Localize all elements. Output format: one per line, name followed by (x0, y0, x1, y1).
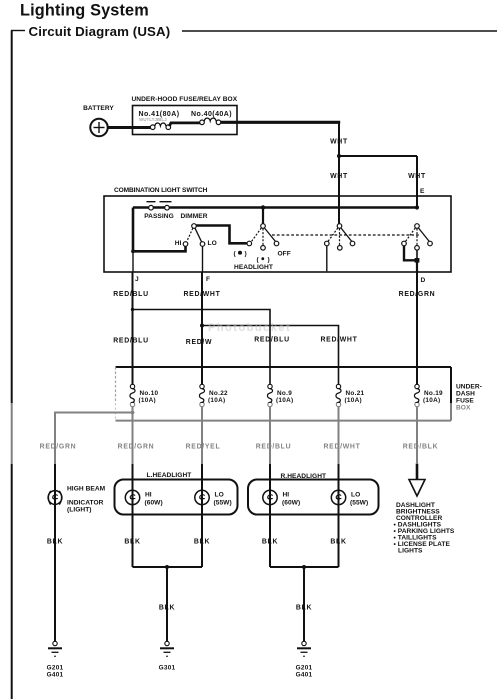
wire bus to headlight pivot (262, 208, 264, 225)
high beam indicator bulb (48, 491, 62, 505)
svg-text:LO: LO (351, 492, 360, 499)
svg-text:(10A): (10A) (345, 397, 362, 404)
svg-text:BLK: BLK (296, 605, 312, 612)
svg-text:RED/BLU: RED/BLU (254, 337, 290, 344)
wire D drop (416, 260, 418, 272)
cluster3 output L-link (thick) (404, 246, 417, 260)
svg-text:L.HEADLIGHT: L.HEADLIGHT (147, 472, 192, 479)
wire No.22 to L LO (201, 407, 203, 567)
svg-text:G401: G401 (47, 672, 64, 679)
bus bar (thick) (133, 206, 417, 209)
fuse No.41 (80A) (150, 125, 155, 130)
svg-text:F: F (206, 276, 210, 283)
svg-text:LIGHTS: LIGHTS (398, 548, 423, 555)
dimmer feed wire (thick) (196, 226, 247, 244)
bus left drop (thick) (132, 208, 135, 252)
cluster2 dashed arm left (328, 228, 338, 242)
svg-text:HIGH BEAM: HIGH BEAM (67, 486, 106, 493)
node J branch (131, 308, 134, 311)
headlight arm to OFF (solid) (265, 228, 276, 242)
passing switch bar (147, 201, 156, 203)
node J junction (131, 249, 135, 253)
wire No.9 to R HI (269, 407, 271, 567)
svg-text:PASSING: PASSING (144, 213, 174, 220)
battery B1 (90, 119, 107, 136)
node fuse10 output branch (131, 411, 135, 415)
headlight contact OFF (274, 241, 279, 246)
wire No.10 to L HI (132, 407, 134, 567)
dimmer switch pivot (192, 224, 197, 229)
R BLK join bar (270, 566, 339, 568)
svg-text:(55W): (55W) (350, 500, 368, 507)
ground G201/G401 right (297, 641, 311, 656)
cluster3 middle contact drop (416, 250, 418, 260)
L headlight box (115, 480, 238, 515)
svg-text:): ) (245, 251, 247, 258)
combination light switch box (104, 196, 451, 272)
svg-text:BLK: BLK (330, 539, 346, 546)
svg-text:D: D (421, 277, 426, 284)
watermark fade band (0, 403, 497, 464)
wire No.19 to arrow (416, 407, 418, 465)
svg-text:RED/BLU: RED/BLU (113, 338, 149, 345)
svg-text:WHT: WHT (330, 173, 348, 180)
switch cluster 3 pivot (415, 224, 420, 229)
header bracket tick (11, 30, 25, 32)
svg-text:DASH: DASH (456, 391, 475, 398)
svg-text:G201: G201 (47, 665, 64, 672)
cluster2 arm solid to right (341, 228, 352, 242)
svg-text:E: E (420, 188, 425, 195)
svg-text:HI: HI (175, 240, 182, 247)
dimmer arm to LO (solid) (195, 228, 202, 242)
wire No.21 to R LO (338, 407, 340, 567)
svg-text:G301: G301 (159, 665, 176, 672)
headlight arm dashed left (252, 228, 262, 242)
wire L join to ground (166, 567, 168, 642)
svg-text:HI: HI (283, 492, 290, 499)
svg-text:(55W): (55W) (214, 500, 232, 507)
svg-text:RED/BLU: RED/BLU (113, 291, 149, 298)
cluster2 left contact drop (326, 246, 328, 271)
header rule right of subtitle (182, 30, 497, 32)
node L join (165, 565, 169, 569)
svg-text:(60W): (60W) (145, 500, 163, 507)
wire D below box (416, 272, 418, 387)
passing switch contacts (149, 205, 154, 210)
svg-text:(10A): (10A) (423, 397, 440, 404)
HI contact drop + link to J (thick) (133, 247, 186, 252)
R headlight box (248, 480, 379, 515)
ground G301 middle (160, 641, 174, 656)
svg-text:BLK: BLK (47, 539, 63, 546)
L HI bulb (125, 490, 139, 504)
svg-text:(10A): (10A) (208, 397, 225, 404)
svg-text:INDICATOR: INDICATOR (67, 500, 104, 507)
node E bus junction (415, 205, 419, 209)
svg-text:No.40(40A): No.40(40A) (191, 111, 232, 118)
cluster3 dashed arm middle (416, 229, 418, 246)
wire LO contact to F (202, 247, 204, 273)
wire F branch to No.21 (202, 326, 339, 387)
svg-text:BLK: BLK (262, 539, 278, 546)
wire J below box (132, 272, 134, 387)
svg-text:(LIGHT): (LIGHT) (67, 507, 92, 514)
svg-text:BLK: BLK (194, 539, 210, 546)
fuse No.9 (10A) (267, 384, 272, 406)
left page border (11, 31, 13, 699)
svg-text:BATTERY: BATTERY (83, 105, 114, 112)
fuse No.10 (10A) (130, 384, 135, 406)
headlight switch pivot (261, 224, 266, 229)
svg-text:): ) (268, 257, 270, 264)
cluster3 contact right (428, 241, 433, 246)
svg-text:WHT: WHT (408, 173, 426, 180)
svg-text:G401: G401 (296, 672, 313, 679)
node headlight switch bus junction (261, 205, 265, 209)
headlight contact middle (261, 246, 266, 251)
svg-text:(10A): (10A) (276, 397, 293, 404)
wire down from feed (338, 122, 340, 156)
cluster2 dashed arm middle (339, 229, 341, 246)
ground G201/G401 left (48, 641, 62, 656)
svg-text:Circuit Diagram (USA): Circuit Diagram (USA) (29, 24, 171, 39)
L BLK join bar (133, 566, 203, 568)
svg-text:WHT: WHT (330, 139, 348, 146)
wire WHT right branch down (E) (416, 156, 418, 208)
svg-text:BLK: BLK (159, 605, 175, 612)
mechanical linkage dashed line (272, 234, 419, 236)
headlight arm dashed middle (262, 229, 264, 246)
cluster3 contact left (402, 241, 407, 246)
wire split horizontal (339, 155, 417, 157)
cluster3 arm solid to right (419, 228, 430, 242)
wire J branch to No.9 (133, 310, 271, 387)
headlight contact left (247, 241, 252, 246)
under-dash fuse box (116, 366, 452, 368)
wire battery to fuse box (thick) (108, 126, 153, 129)
fuse No.21 (10A) (336, 384, 341, 406)
svg-text:OFF: OFF (278, 251, 291, 258)
under-dash fuse box left edge (faded) (115, 367, 117, 421)
switch cluster 2 pivot (337, 224, 342, 229)
wire R join to ground (303, 567, 305, 642)
wire J drop to box bottom (132, 251, 134, 272)
cluster2 contact right (350, 241, 355, 246)
cluster3 dashed arm left (406, 228, 416, 242)
svg-text:RED/GRN: RED/GRN (399, 291, 436, 298)
svg-text:WUTLTJIBLJ: WUTLTJIBLJ (139, 117, 167, 122)
R HI bulb (263, 490, 277, 504)
svg-text:(60W): (60W) (282, 500, 300, 507)
wire WHT left branch down (338, 156, 340, 224)
cluster3 contact middle (415, 246, 420, 251)
svg-text:HI: HI (145, 492, 152, 499)
wire branch to high beam indicator (55, 413, 133, 642)
dimmer arm to HI (dashed) (187, 228, 193, 241)
node F branch (200, 324, 204, 328)
L LO bulb (195, 490, 209, 504)
wire fuse41 to fuse40 (thick) (169, 123, 200, 126)
fuse No.40 (40A) (200, 120, 205, 125)
svg-text:DIMMER: DIMMER (180, 213, 207, 220)
svg-text:Photobucket: Photobucket (208, 322, 291, 334)
cluster2 contact left (325, 241, 330, 246)
main feed wire to right (thick) (221, 121, 340, 124)
svg-text:G201: G201 (296, 665, 313, 672)
svg-text:HEADLIGHT: HEADLIGHT (234, 264, 273, 271)
svg-text:COMBINATION LIGHT SWITCH: COMBINATION LIGHT SWITCH (114, 187, 208, 194)
contact LO (200, 242, 205, 247)
svg-text:BLK: BLK (124, 539, 140, 546)
R LO bulb (331, 490, 345, 504)
fuse No.22 (10A) (199, 384, 204, 406)
svg-text:LO: LO (215, 492, 224, 499)
svg-text:UNDER-HOOD FUSE/RELAY BOX: UNDER-HOOD FUSE/RELAY BOX (132, 96, 238, 103)
svg-text:RED/WHT: RED/WHT (320, 337, 357, 344)
svg-text:(10A): (10A) (139, 397, 156, 404)
wire F below box (201, 272, 203, 387)
cluster2 contact middle (338, 246, 343, 251)
node cluster3 output junction (415, 258, 420, 263)
svg-text:RED/W: RED/W (186, 339, 212, 346)
fuse No.19 (10A) (414, 384, 419, 406)
svg-text:J: J (135, 276, 139, 283)
node R join (302, 565, 306, 569)
svg-text:RED/WHT: RED/WHT (183, 291, 220, 298)
under-hood fuse/relay box (133, 106, 238, 135)
svg-text:Lighting System: Lighting System (20, 2, 149, 20)
svg-text:UNDER-: UNDER- (456, 384, 482, 391)
contact HI (183, 242, 188, 247)
node: WHT split junction (337, 154, 341, 158)
continuation arrow to dash lights (409, 480, 425, 497)
svg-text:LO: LO (208, 240, 217, 247)
